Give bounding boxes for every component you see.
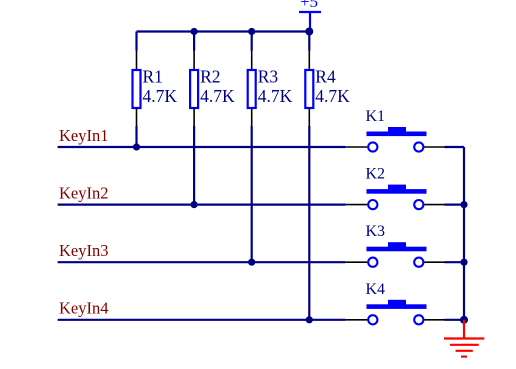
- wire right rail: [463, 147, 465, 320]
- svg-text:KeyIn3: KeyIn3: [59, 241, 108, 260]
- svg-text:+5: +5: [300, 0, 318, 11]
- wire KeyIn2: [58, 204, 346, 206]
- node KeyIn2-R2: [191, 201, 198, 208]
- switch K3: [345, 223, 464, 267]
- node KeyIn3-R3: [248, 259, 255, 266]
- node bus-R3: [248, 28, 255, 35]
- svg-text:R4: R4: [315, 67, 336, 87]
- switch K1: [345, 108, 464, 152]
- svg-text:4.7K: 4.7K: [143, 86, 178, 106]
- ground: [444, 320, 484, 357]
- svg-text:KeyIn1: KeyIn1: [59, 126, 108, 145]
- node KeyIn4-R4: [306, 316, 313, 323]
- node rail-K3: [460, 259, 467, 266]
- resistor R3: [248, 32, 293, 263]
- switch K4: [345, 281, 464, 325]
- wire KeyIn4: [58, 319, 346, 321]
- svg-text:K3: K3: [366, 223, 386, 240]
- switch K2: [345, 166, 464, 210]
- svg-text:4.7K: 4.7K: [315, 86, 350, 106]
- svg-text:4.7K: 4.7K: [258, 86, 293, 106]
- power +5 bar symbol: [299, 12, 321, 32]
- node bus-R2: [191, 28, 198, 35]
- svg-text:KeyIn4: KeyIn4: [59, 299, 108, 318]
- svg-text:K2: K2: [366, 166, 386, 183]
- node rail-ground: [460, 316, 468, 324]
- node KeyIn1-R1: [133, 143, 140, 150]
- resistor R2: [190, 32, 235, 205]
- wire top bus: [137, 30, 310, 32]
- wire KeyIn1: [58, 146, 346, 148]
- resistor R1: [133, 32, 178, 148]
- svg-text:R2: R2: [200, 67, 220, 87]
- wire KeyIn3: [58, 261, 346, 263]
- svg-text:R3: R3: [258, 67, 279, 87]
- svg-text:K1: K1: [366, 108, 386, 125]
- resistor R4: [305, 32, 350, 320]
- svg-text:R1: R1: [143, 67, 163, 87]
- svg-text:K4: K4: [366, 281, 386, 298]
- node bus-power: [305, 28, 313, 36]
- svg-text:4.7K: 4.7K: [200, 86, 235, 106]
- svg-text:KeyIn2: KeyIn2: [59, 183, 108, 202]
- node rail-K2: [460, 201, 467, 208]
